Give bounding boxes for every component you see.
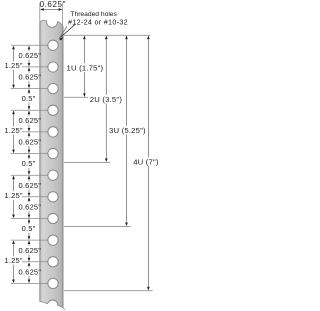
hole H3: [48, 83, 58, 93]
hole H5: [48, 127, 58, 137]
svg-text:0.625": 0.625": [18, 116, 41, 125]
svg-text:1.25": 1.25": [4, 61, 22, 70]
dim 0.625" between holes H5-H6: [28, 135, 30, 137]
extension line at hole H6: [11, 153, 48, 155]
top width dim: right extension line: [62, 3, 64, 25]
svg-text:0.625": 0.625": [18, 246, 41, 255]
svg-text:0.5": 0.5": [22, 94, 36, 103]
svg-text:0.5": 0.5": [22, 159, 36, 168]
3U dimension line: [126, 39, 128, 126]
hole H12: [48, 278, 58, 288]
svg-text:3U (5.25"): 3U (5.25"): [109, 126, 146, 135]
rail left edge: [39, 22, 41, 302]
note leader arrow to hole H1: [61, 24, 76, 37]
extension line at hole H3: [11, 88, 48, 90]
4U boundary leader line: [64, 290, 153, 292]
svg-text:0.625": 0.625": [40, 0, 66, 9]
dim 1.25" between holes H7-H9: [13, 179, 15, 192]
top width dim: left extension line: [39, 3, 41, 21]
dim 0.625" between holes H1-H2: [28, 49, 30, 51]
dim 0.5" between holes H9-H10: [28, 222, 30, 224]
dim 0.625" between holes H10-H11: [28, 244, 30, 246]
extension line at hole H7: [11, 174, 48, 176]
top break edge flourish: [60, 26, 68, 38]
dim 0.625" between holes H4-H5: [28, 114, 30, 116]
2U boundary leader line: [64, 161, 110, 163]
dim 1.25" between holes H1-H3: [13, 49, 15, 62]
svg-text:1.25": 1.25": [4, 256, 22, 265]
3U boundary leader line: [64, 225, 131, 227]
bottom break partial hole notch: [47, 300, 57, 310]
svg-text:0.625": 0.625": [18, 138, 41, 147]
dim 0.625" between holes H11-H12: [28, 265, 30, 267]
top width dim: arrow line: [41, 8, 62, 10]
svg-text:0.625": 0.625": [18, 73, 41, 82]
extension line at hole H11: [22, 261, 48, 263]
dim 1.25" between holes H10-H12: [13, 244, 15, 257]
1U dimension line: [83, 39, 85, 64]
hole H9: [48, 213, 58, 223]
top break edge line: [40, 20, 63, 26]
top datum leader line: [64, 34, 151, 36]
svg-text:1.25": 1.25": [4, 126, 22, 135]
hole H2: [48, 62, 58, 72]
dim 0.625" between holes H2-H3: [28, 70, 30, 72]
extension line at hole H10: [11, 239, 48, 241]
bottom break edge tail: [63, 308, 66, 310]
dim 0.5" between holes H6-H7: [28, 157, 30, 159]
extension line at hole H12: [11, 282, 48, 284]
dim 0.5" between holes H3-H4: [28, 92, 30, 94]
svg-text:#12-24 or #10-32: #12-24 or #10-32: [68, 17, 128, 26]
dim 1.25" between holes H4-H6: [13, 114, 15, 127]
4U dimension line: [147, 39, 149, 158]
extension line at hole H2: [22, 66, 48, 68]
hole H4: [48, 105, 58, 115]
extension line at hole H9: [11, 218, 48, 220]
hole H10: [48, 235, 58, 245]
bottom break edge line: [40, 302, 63, 308]
hole H11: [48, 257, 58, 267]
extension line at hole H1: [11, 44, 48, 46]
svg-text:0.625": 0.625": [18, 267, 41, 276]
1U boundary leader line: [64, 96, 88, 98]
hole H8: [48, 192, 58, 202]
svg-text:4U (7"): 4U (7"): [133, 157, 159, 166]
svg-text:0.5": 0.5": [22, 224, 36, 233]
top break partial hole notch: [47, 16, 58, 27]
rail body (vertical mounting strip with break lines top and bottom): [40, 21, 63, 308]
hole H1: [48, 40, 58, 50]
svg-text:2U (3.5"): 2U (3.5"): [90, 95, 123, 104]
svg-text:0.625": 0.625": [18, 51, 41, 60]
extension line at hole H4: [11, 109, 48, 111]
rail right edge: [62, 26, 64, 308]
svg-text:1.25": 1.25": [4, 191, 22, 200]
svg-text:0.625": 0.625": [18, 181, 41, 190]
extension line at hole H5: [22, 131, 48, 133]
hole H6: [48, 148, 58, 158]
dim 0.625" between holes H7-H8: [28, 179, 30, 181]
extension line at hole H8: [22, 196, 48, 198]
svg-text:0.625": 0.625": [18, 203, 41, 212]
dim 0.625" between holes H8-H9: [28, 200, 30, 202]
svg-text:1U (1.75"): 1U (1.75"): [67, 63, 104, 72]
hole H7: [48, 170, 58, 180]
2U dimension line: [105, 39, 107, 95]
